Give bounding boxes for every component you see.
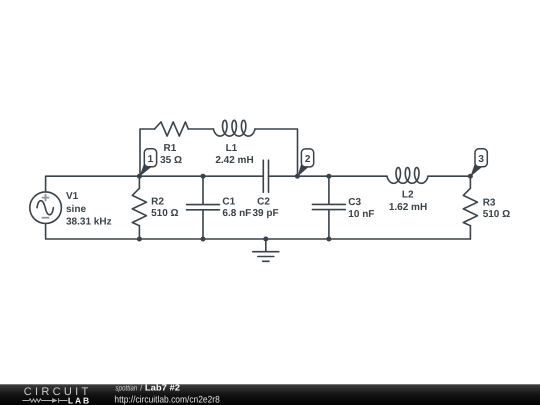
svg-text:R3: R3 <box>483 198 496 209</box>
svg-text:C1: C1 <box>222 197 235 208</box>
svg-text:3: 3 <box>478 154 484 165</box>
svg-text:L2: L2 <box>402 189 414 200</box>
svg-text:C2: C2 <box>257 197 270 208</box>
svg-text:35 Ω: 35 Ω <box>160 155 182 166</box>
svg-text:spottian: spottian <box>115 383 137 392</box>
svg-text:2: 2 <box>305 154 311 165</box>
svg-text:1: 1 <box>148 154 154 165</box>
svg-text:510 Ω: 510 Ω <box>483 209 510 220</box>
svg-text:C3: C3 <box>348 197 361 208</box>
svg-text:V1: V1 <box>66 191 79 202</box>
svg-text:R2: R2 <box>151 197 164 208</box>
svg-text:510 Ω: 510 Ω <box>151 208 178 219</box>
svg-text:6.8 nF: 6.8 nF <box>222 208 251 219</box>
svg-text:10 nF: 10 nF <box>348 209 374 220</box>
svg-text:Lab7 #2: Lab7 #2 <box>145 382 180 392</box>
svg-text:39 pF: 39 pF <box>252 208 278 219</box>
svg-text:LAB: LAB <box>68 396 89 405</box>
svg-text:1.62 mH: 1.62 mH <box>389 202 427 213</box>
svg-text:L1: L1 <box>226 143 238 154</box>
svg-text:R1: R1 <box>164 143 177 154</box>
svg-text:2.42 mH: 2.42 mH <box>215 155 253 166</box>
svg-text:http://circuitlab.com/cn2e2r8: http://circuitlab.com/cn2e2r8 <box>114 395 219 405</box>
svg-text:38.31 kHz: 38.31 kHz <box>66 217 112 228</box>
svg-text:sine: sine <box>66 204 86 215</box>
